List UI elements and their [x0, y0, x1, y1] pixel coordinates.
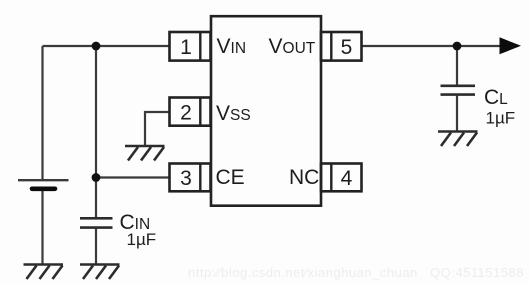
wire input rail vertical — [95, 46, 97, 218]
svg-text:NC: NC — [289, 166, 319, 189]
pin 2 box — [170, 98, 211, 126]
wire VOUT output — [362, 45, 519, 47]
IC U1 body — [211, 16, 321, 206]
svg-text:4: 4 — [341, 167, 353, 190]
wire VIN top horizontal — [43, 45, 170, 47]
label VIN — [217, 35, 247, 58]
wire CE to pin 3 — [96, 176, 170, 178]
ground CL — [438, 132, 478, 147]
svg-text:VSS: VSS — [216, 102, 251, 125]
node output junction — [453, 42, 462, 51]
pin 4 box — [321, 164, 362, 192]
battery B1 — [18, 180, 69, 189]
pin 5 box — [321, 32, 362, 61]
pin 1 box — [170, 32, 211, 61]
wire battery vertical top — [41, 46, 43, 180]
svg-text:5: 5 — [341, 36, 353, 59]
ground battery — [24, 265, 64, 280]
node input junction — [92, 42, 101, 51]
label VSS — [216, 102, 251, 125]
wire CL vertical — [456, 46, 458, 86]
svg-text:1µF: 1µF — [127, 230, 157, 249]
label CL value — [484, 86, 515, 128]
arrow output — [500, 37, 522, 54]
wire VSS pin 2 to ground — [145, 112, 170, 146]
svg-text:nttp:∕∕blog.csdn.net∕xianghuan: nttp:∕∕blog.csdn.net∕xianghuan_chuan QQ:… — [188, 265, 524, 280]
svg-text:1µF: 1µF — [486, 109, 516, 128]
capacitor CIN — [80, 218, 113, 227]
node CE junction — [92, 173, 101, 182]
pin 3 box — [170, 164, 211, 192]
label VOUT — [269, 35, 316, 58]
label CIN value — [120, 211, 157, 249]
svg-text:2: 2 — [180, 101, 192, 124]
svg-text:CE: CE — [216, 166, 245, 189]
label NC — [289, 166, 319, 189]
watermark — [188, 265, 524, 280]
svg-text:VIN: VIN — [217, 35, 247, 58]
svg-text:VOUT: VOUT — [269, 35, 316, 58]
ground VSS — [125, 146, 165, 161]
wire CL to ground — [456, 96, 458, 132]
svg-text:CL: CL — [484, 86, 508, 109]
ground CIN — [80, 265, 120, 280]
wire CIN to ground — [95, 229, 97, 265]
svg-text:3: 3 — [180, 167, 192, 190]
wire battery to ground — [41, 191, 43, 264]
label CE — [216, 166, 245, 189]
capacitor CL — [441, 86, 476, 95]
svg-text:1: 1 — [180, 36, 192, 59]
